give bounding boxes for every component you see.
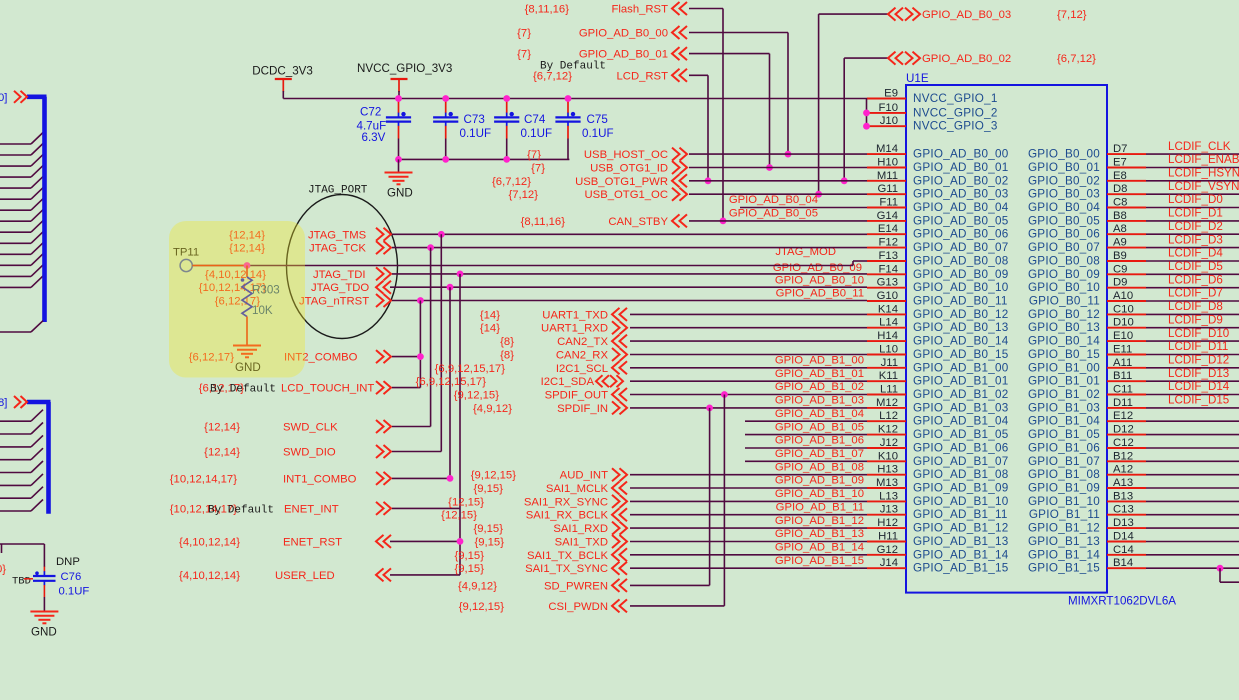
- svg-text:LCDIF_D1: LCDIF_D1: [1168, 207, 1223, 220]
- svg-text:SAI1_RX_SYNC: SAI1_RX_SYNC: [524, 496, 608, 508]
- svg-text:NVCC_GPIO_2: NVCC_GPIO_2: [913, 106, 998, 119]
- svg-text:NVCC_GPIO_3: NVCC_GPIO_3: [913, 120, 998, 133]
- svg-text:DCDC_3V3: DCDC_3V3: [252, 65, 313, 78]
- svg-text:SAI1_RXD: SAI1_RXD: [553, 523, 608, 535]
- svg-text:ENET_INT: ENET_INT: [284, 503, 339, 515]
- svg-text:B12: B12: [1113, 450, 1133, 462]
- svg-text:8]: 8]: [0, 397, 7, 409]
- svg-text:A9: A9: [1113, 237, 1127, 249]
- svg-text:LCDIF_D10: LCDIF_D10: [1168, 327, 1229, 340]
- svg-text:GPIO_AD_B1_01: GPIO_AD_B1_01: [775, 368, 864, 380]
- svg-text:{9,15}: {9,15}: [474, 537, 504, 549]
- svg-text:LCDIF_D4: LCDIF_D4: [1168, 247, 1223, 260]
- svg-text:DNP: DNP: [56, 556, 80, 568]
- svg-text:SPDIF_IN: SPDIF_IN: [557, 403, 608, 415]
- svg-text:C13: C13: [1113, 504, 1134, 516]
- svg-text:GPIO_AD_B1_04: GPIO_AD_B1_04: [913, 415, 1009, 428]
- svg-text:J13: J13: [880, 504, 898, 516]
- svg-text:GPIO_AD_B1_05: GPIO_AD_B1_05: [775, 421, 864, 433]
- svg-text:D14: D14: [1113, 531, 1134, 543]
- svg-text:{8,11,16}: {8,11,16}: [521, 216, 566, 228]
- svg-text:E9: E9: [884, 88, 898, 100]
- svg-text:GPIO_AD_B0_02: GPIO_AD_B0_02: [913, 174, 1009, 187]
- svg-text:CAN_STBY: CAN_STBY: [608, 216, 668, 228]
- svg-text:SWD_DIO: SWD_DIO: [283, 447, 336, 459]
- svg-text:USB_HOST_OC: USB_HOST_OC: [584, 149, 668, 161]
- svg-text:GPIO_AD_B1_08: GPIO_AD_B1_08: [775, 461, 864, 473]
- svg-text:J12: J12: [880, 437, 898, 449]
- svg-text:G14: G14: [877, 210, 898, 222]
- svg-text:{7}: {7}: [531, 163, 545, 175]
- svg-text:GPIO_AD_B0_13: GPIO_AD_B0_13: [913, 321, 1009, 334]
- svg-text:{6,9,12,15,17}: {6,9,12,15,17}: [435, 363, 506, 375]
- svg-text:GPIO_B1_15: GPIO_B1_15: [1028, 562, 1100, 575]
- svg-text:C14: C14: [1113, 544, 1134, 556]
- svg-text:GPIO_B0_00: GPIO_B0_00: [1028, 148, 1100, 161]
- svg-text:JTAG_TMS: JTAG_TMS: [308, 229, 367, 241]
- svg-text:GPIO_AD_B0_06: GPIO_AD_B0_06: [913, 228, 1009, 241]
- svg-text:GPIO_AD_B0_15: GPIO_AD_B0_15: [913, 348, 1009, 361]
- svg-text:C72: C72: [360, 106, 381, 119]
- svg-text:LCDIF_D13: LCDIF_D13: [1168, 367, 1229, 380]
- svg-text:GPIO_AD_B0_11: GPIO_AD_B0_11: [776, 288, 864, 300]
- svg-text:A10: A10: [1113, 290, 1133, 302]
- svg-text:SAI1_RX_BCLK: SAI1_RX_BCLK: [526, 510, 609, 522]
- svg-text:H14: H14: [877, 330, 898, 342]
- svg-text:GPIO_AD_B0_01: GPIO_AD_B0_01: [579, 49, 668, 61]
- svg-text:LCD_TOUCH_INT: LCD_TOUCH_INT: [281, 383, 374, 395]
- svg-text:{9,12,15}: {9,12,15}: [454, 390, 499, 402]
- svg-text:CAN2_TX: CAN2_TX: [557, 336, 608, 348]
- svg-text:GPIO_B0_12: GPIO_B0_12: [1028, 308, 1100, 321]
- svg-text:JTAG_TCK: JTAG_TCK: [309, 243, 366, 255]
- svg-text:G11: G11: [877, 183, 898, 195]
- svg-text:LCDIF_D15: LCDIF_D15: [1168, 394, 1229, 407]
- svg-text:H10: H10: [877, 157, 898, 169]
- svg-text:JTAG_TDO: JTAG_TDO: [311, 282, 369, 294]
- svg-text:{12,15}: {12,15}: [448, 496, 484, 508]
- svg-text:JTAG_TDI: JTAG_TDI: [313, 269, 366, 281]
- svg-text:C10: C10: [1113, 303, 1134, 315]
- svg-text:J10: J10: [880, 115, 898, 127]
- svg-text:NVCC_GPIO_1: NVCC_GPIO_1: [913, 92, 998, 105]
- svg-text:GPIO_AD_B1_03: GPIO_AD_B1_03: [913, 401, 1009, 414]
- svg-text:F10: F10: [879, 102, 898, 114]
- svg-text:U1E: U1E: [906, 72, 929, 85]
- svg-text:{9,12,15}: {9,12,15}: [471, 470, 516, 482]
- svg-text:F13: F13: [879, 250, 898, 262]
- svg-text:SD_PWREN: SD_PWREN: [544, 580, 608, 592]
- svg-text:UART1_TXD: UART1_TXD: [542, 309, 608, 321]
- svg-text:AUD_INT: AUD_INT: [560, 470, 608, 482]
- svg-text:6.3V: 6.3V: [362, 131, 386, 144]
- svg-text:SPDIF_OUT: SPDIF_OUT: [545, 390, 608, 402]
- svg-text:A11: A11: [1113, 357, 1132, 369]
- svg-text:G13: G13: [877, 277, 898, 289]
- svg-text:GPIO_AD_B0_08: GPIO_AD_B0_08: [913, 255, 1009, 268]
- svg-text:C74: C74: [524, 113, 546, 126]
- svg-text:CSI_PWDN: CSI_PWDN: [548, 601, 608, 613]
- svg-text:USB_OTG1_OC: USB_OTG1_OC: [585, 189, 669, 201]
- svg-text:GPIO_AD_B0_04: GPIO_AD_B0_04: [913, 201, 1009, 214]
- svg-text:{10,12,14,17}: {10,12,14,17}: [170, 473, 237, 485]
- svg-text:B14: B14: [1113, 557, 1133, 569]
- svg-text:GPIO_B1_13: GPIO_B1_13: [1028, 535, 1100, 548]
- svg-text:GPIO_B1_04: GPIO_B1_04: [1028, 415, 1100, 428]
- svg-text:LCDIF_D3: LCDIF_D3: [1168, 233, 1223, 246]
- svg-text:LCD_RST: LCD_RST: [617, 70, 669, 82]
- svg-text:GPIO_AD_B1_06: GPIO_AD_B1_06: [775, 435, 864, 447]
- svg-text:GPIO_AD_B1_12: GPIO_AD_B1_12: [775, 515, 864, 527]
- svg-text:GPIO_B0_05: GPIO_B0_05: [1028, 214, 1100, 227]
- svg-text:F11: F11: [879, 197, 898, 209]
- svg-text:GPIO_AD_B1_05: GPIO_AD_B1_05: [913, 428, 1009, 441]
- svg-text:0.1UF: 0.1UF: [521, 127, 553, 140]
- svg-text:GPIO_AD_B1_11: GPIO_AD_B1_11: [913, 508, 1008, 521]
- svg-text:{6,9,12,15,17}: {6,9,12,15,17}: [416, 376, 487, 388]
- svg-text:M12: M12: [876, 397, 898, 409]
- svg-text:0.1UF: 0.1UF: [59, 586, 90, 598]
- svg-text:GPIO_B1_05: GPIO_B1_05: [1028, 428, 1100, 441]
- svg-text:GPIO_AD_B0_09: GPIO_AD_B0_09: [913, 268, 1009, 281]
- svg-text:GPIO_AD_B1_14: GPIO_AD_B1_14: [775, 542, 864, 554]
- svg-text:{8}: {8}: [500, 336, 514, 348]
- svg-text:GPIO_B1_06: GPIO_B1_06: [1028, 442, 1100, 455]
- svg-text:LCDIF_CLK: LCDIF_CLK: [1168, 140, 1231, 153]
- svg-text:A13: A13: [1113, 477, 1133, 489]
- svg-text:LCDIF_D9: LCDIF_D9: [1168, 313, 1223, 326]
- svg-text:LCDIF_D8: LCDIF_D8: [1168, 300, 1223, 313]
- svg-text:LCDIF_D5: LCDIF_D5: [1168, 260, 1223, 273]
- svg-text:GPIO_AD_B1_00: GPIO_AD_B1_00: [913, 361, 1009, 374]
- svg-text:{8,11,16}: {8,11,16}: [525, 4, 570, 16]
- svg-text:GPIO_AD_B0_10: GPIO_AD_B0_10: [775, 274, 864, 286]
- svg-text:{12,14}: {12,14}: [204, 447, 240, 459]
- svg-text:GPIO_AD_B1_11: GPIO_AD_B1_11: [776, 501, 864, 513]
- svg-text:GPIO_B0_04: GPIO_B0_04: [1028, 201, 1100, 214]
- svg-text:GPIO_B1_10: GPIO_B1_10: [1028, 495, 1100, 508]
- svg-text:LCDIF_ENABLE: LCDIF_ENABLE: [1168, 153, 1239, 166]
- svg-text:GPIO_B0_08: GPIO_B0_08: [1028, 255, 1100, 268]
- svg-text:GPIO_B1_07: GPIO_B1_07: [1028, 455, 1100, 468]
- svg-text:GPIO_B1_08: GPIO_B1_08: [1028, 468, 1100, 481]
- svg-text:E7: E7: [1113, 157, 1127, 169]
- svg-text:GPIO_B0_14: GPIO_B0_14: [1028, 335, 1100, 348]
- svg-text:By Default: By Default: [210, 384, 276, 396]
- svg-text:GPIO_AD_B0_04: GPIO_AD_B0_04: [729, 194, 818, 206]
- svg-text:CAN2_RX: CAN2_RX: [556, 350, 609, 362]
- svg-text:D12: D12: [1113, 424, 1134, 436]
- svg-text:D10: D10: [1113, 317, 1134, 329]
- svg-text:D8: D8: [1113, 183, 1127, 195]
- svg-text:ENET_RST: ENET_RST: [283, 536, 342, 548]
- svg-text:C11: C11: [1113, 384, 1133, 396]
- svg-text:LCDIF_VSYNC: LCDIF_VSYNC: [1168, 180, 1239, 193]
- svg-text:{8}: {8}: [500, 350, 514, 362]
- svg-text:0]: 0]: [0, 92, 7, 104]
- svg-text:B11: B11: [1113, 370, 1132, 382]
- svg-text:SAI1_TXD: SAI1_TXD: [555, 537, 608, 549]
- svg-text:I2C1_SCL: I2C1_SCL: [556, 363, 608, 375]
- svg-text:K14: K14: [878, 303, 898, 315]
- svg-text:C73: C73: [464, 113, 485, 126]
- svg-text:GND: GND: [387, 187, 413, 200]
- svg-text:{12,15}: {12,15}: [441, 510, 477, 522]
- svg-text:B13: B13: [1113, 490, 1133, 502]
- svg-text:K11: K11: [879, 370, 898, 382]
- svg-text:GPIO_AD_B1_13: GPIO_AD_B1_13: [913, 535, 1009, 548]
- svg-text:TBD: TBD: [12, 576, 31, 588]
- svg-text:{14}: {14}: [480, 309, 500, 321]
- svg-text:C76: C76: [61, 571, 82, 583]
- svg-text:LCDIF_D6: LCDIF_D6: [1168, 273, 1223, 286]
- svg-text:GPIO_AD_B1_08: GPIO_AD_B1_08: [913, 468, 1009, 481]
- svg-text:By Default: By Default: [208, 504, 274, 516]
- svg-text:L12: L12: [879, 410, 898, 422]
- svg-text:M13: M13: [876, 477, 898, 489]
- svg-text:GPIO_B0_01: GPIO_B0_01: [1028, 161, 1100, 174]
- svg-text:L13: L13: [879, 490, 898, 502]
- svg-text:{4,10,12,14}: {4,10,12,14}: [179, 536, 240, 548]
- svg-text:{9,15}: {9,15}: [473, 483, 503, 495]
- svg-text:H12: H12: [877, 517, 898, 529]
- svg-text:A8: A8: [1113, 223, 1127, 235]
- svg-text:{9,15}: {9,15}: [454, 550, 484, 562]
- svg-text:GPIO_B1_11: GPIO_B1_11: [1029, 508, 1100, 521]
- svg-text:D13: D13: [1113, 517, 1134, 529]
- svg-text:LCDIF_D2: LCDIF_D2: [1168, 220, 1223, 233]
- svg-text:NVCC_GPIO_3V3: NVCC_GPIO_3V3: [357, 62, 452, 75]
- svg-text:M11: M11: [877, 170, 898, 182]
- svg-text:B9: B9: [1113, 250, 1127, 262]
- svg-text:{9,15}: {9,15}: [454, 563, 484, 575]
- svg-text:K10: K10: [878, 450, 898, 462]
- svg-text:{4,9,12}: {4,9,12}: [458, 580, 497, 592]
- svg-text:GPIO_AD_B1_06: GPIO_AD_B1_06: [913, 442, 1009, 455]
- svg-text:GPIO_AD_B0_11: GPIO_AD_B0_11: [913, 295, 1008, 308]
- svg-text:G12: G12: [877, 544, 898, 556]
- svg-text:GPIO_AD_B0_03: GPIO_AD_B0_03: [913, 188, 1009, 201]
- svg-text:{7,12}: {7,12}: [508, 189, 538, 201]
- svg-text:C9: C9: [1113, 263, 1127, 275]
- svg-text:{12,14}: {12,14}: [204, 422, 240, 434]
- svg-text:GPIO_AD_B1_01: GPIO_AD_B1_01: [913, 375, 1009, 388]
- svg-text:GPIO_B0_11: GPIO_B0_11: [1029, 295, 1100, 308]
- svg-text:GPIO_AD_B0_14: GPIO_AD_B0_14: [913, 335, 1009, 348]
- svg-text:JTAG_nTRST: JTAG_nTRST: [299, 296, 369, 308]
- svg-text:K12: K12: [878, 424, 898, 436]
- svg-text:MIMXRT1062DVL6A: MIMXRT1062DVL6A: [1068, 595, 1176, 608]
- svg-text:GPIO_AD_B1_13: GPIO_AD_B1_13: [775, 528, 864, 540]
- svg-text:A12: A12: [1113, 464, 1133, 476]
- svg-text:GPIO_B0_09: GPIO_B0_09: [1028, 268, 1100, 281]
- svg-text:D11: D11: [1113, 397, 1133, 409]
- svg-text:F12: F12: [879, 237, 898, 249]
- svg-text:GPIO_B0_15: GPIO_B0_15: [1028, 348, 1100, 361]
- svg-text:By Default: By Default: [540, 61, 606, 73]
- svg-text:{7}: {7}: [527, 149, 541, 161]
- svg-text:D9: D9: [1113, 277, 1127, 289]
- svg-text:{9,12,15}: {9,12,15}: [459, 601, 504, 613]
- svg-text:B8: B8: [1113, 210, 1127, 222]
- svg-text:GPIO_B1_00: GPIO_B1_00: [1028, 361, 1100, 374]
- svg-text:GPIO_AD_B1_07: GPIO_AD_B1_07: [913, 455, 1009, 468]
- svg-text:F14: F14: [879, 263, 898, 275]
- svg-text:E8: E8: [1113, 170, 1127, 182]
- svg-text:USB_OTG1_ID: USB_OTG1_ID: [590, 163, 668, 175]
- svg-text:GPIO_AD_B1_09: GPIO_AD_B1_09: [775, 475, 864, 487]
- svg-text:E11: E11: [1113, 344, 1132, 356]
- svg-text:GPIO_B1_01: GPIO_B1_01: [1028, 375, 1100, 388]
- svg-text:GPIO_AD_B0_00: GPIO_AD_B0_00: [579, 28, 668, 40]
- svg-text:GPIO_B1_02: GPIO_B1_02: [1028, 388, 1100, 401]
- svg-text:G10: G10: [877, 290, 898, 302]
- svg-text:LCDIF_D11: LCDIF_D11: [1168, 340, 1228, 353]
- svg-text:0.1UF: 0.1UF: [460, 127, 492, 140]
- svg-text:H13: H13: [877, 464, 898, 476]
- svg-text:H11: H11: [878, 531, 898, 543]
- svg-text:0.1UF: 0.1UF: [582, 127, 614, 140]
- svg-text:C12: C12: [1113, 437, 1134, 449]
- svg-text:GPIO_AD_B1_15: GPIO_AD_B1_15: [913, 562, 1009, 575]
- svg-text:GPIO_AD_B1_15: GPIO_AD_B1_15: [775, 555, 864, 567]
- svg-text:0}: 0}: [0, 564, 6, 576]
- svg-text:GPIO_AD_B0_02: GPIO_AD_B0_02: [922, 53, 1011, 65]
- svg-text:GPIO_AD_B0_10: GPIO_AD_B0_10: [913, 281, 1009, 294]
- svg-text:E12: E12: [1113, 410, 1133, 422]
- svg-text:GPIO_AD_B1_07: GPIO_AD_B1_07: [775, 448, 864, 460]
- svg-text:GPIO_AD_B1_10: GPIO_AD_B1_10: [775, 488, 864, 500]
- svg-text:GPIO_B0_03: GPIO_B0_03: [1028, 188, 1100, 201]
- svg-text:GPIO_AD_B1_10: GPIO_AD_B1_10: [913, 495, 1009, 508]
- svg-text:SWD_CLK: SWD_CLK: [283, 422, 338, 434]
- svg-text:GPIO_B0_10: GPIO_B0_10: [1028, 281, 1100, 294]
- svg-text:GPIO_B0_06: GPIO_B0_06: [1028, 228, 1100, 241]
- svg-text:GPIO_AD_B1_14: GPIO_AD_B1_14: [913, 548, 1009, 561]
- svg-text:LCDIF_HSYNC: LCDIF_HSYNC: [1168, 167, 1239, 180]
- svg-text:GPIO_B1_14: GPIO_B1_14: [1028, 548, 1100, 561]
- svg-text:UART1_RXD: UART1_RXD: [541, 323, 608, 335]
- svg-text:LCDIF_D7: LCDIF_D7: [1168, 287, 1223, 300]
- svg-text:D7: D7: [1113, 143, 1127, 155]
- svg-text:LCDIF_D14: LCDIF_D14: [1168, 380, 1230, 393]
- svg-text:I2C1_SDA: I2C1_SDA: [541, 376, 595, 388]
- svg-text:{4,10,12,14}: {4,10,12,14}: [179, 570, 240, 582]
- svg-text:GND: GND: [31, 626, 57, 639]
- svg-text:L11: L11: [880, 384, 898, 396]
- svg-text:USER_LED: USER_LED: [275, 570, 335, 582]
- svg-text:{4,9,12}: {4,9,12}: [473, 403, 512, 415]
- svg-text:GPIO_AD_B1_09: GPIO_AD_B1_09: [913, 482, 1009, 495]
- svg-text:LCDIF_D0: LCDIF_D0: [1168, 193, 1223, 206]
- svg-text:{6,7,12}: {6,7,12}: [1057, 53, 1096, 65]
- svg-text:{7,12}: {7,12}: [1057, 9, 1087, 21]
- svg-text:GPIO_AD_B1_02: GPIO_AD_B1_02: [775, 381, 864, 393]
- svg-text:GPIO_B1_03: GPIO_B1_03: [1028, 401, 1100, 414]
- svg-text:SAI1_MCLK: SAI1_MCLK: [546, 483, 609, 495]
- svg-text:GPIO_AD_B0_00: GPIO_AD_B0_00: [913, 148, 1009, 161]
- svg-text:GPIO_AD_B0_07: GPIO_AD_B0_07: [913, 241, 1009, 254]
- svg-text:GPIO_B0_02: GPIO_B0_02: [1028, 174, 1100, 187]
- svg-text:{9,15}: {9,15}: [473, 523, 503, 535]
- svg-text:L10: L10: [879, 344, 898, 356]
- svg-text:GPIO_B1_12: GPIO_B1_12: [1028, 522, 1100, 535]
- svg-text:GPIO_AD_B0_12: GPIO_AD_B0_12: [913, 308, 1009, 321]
- svg-text:C75: C75: [587, 113, 608, 126]
- svg-text:GPIO_B0_13: GPIO_B0_13: [1028, 321, 1100, 334]
- svg-text:L14: L14: [879, 317, 898, 329]
- svg-text:{14}: {14}: [480, 323, 500, 335]
- svg-text:GPIO_AD_B0_05: GPIO_AD_B0_05: [729, 208, 818, 220]
- svg-text:E14: E14: [878, 223, 898, 235]
- svg-text:LCDIF_D12: LCDIF_D12: [1168, 354, 1229, 367]
- svg-text:GPIO_AD_B0_09: GPIO_AD_B0_09: [773, 262, 862, 274]
- svg-text:GPIO_AD_B0_05: GPIO_AD_B0_05: [913, 214, 1009, 227]
- svg-text:M14: M14: [876, 143, 898, 155]
- svg-text:GPIO_AD_B1_03: GPIO_AD_B1_03: [775, 395, 864, 407]
- svg-text:SAI1_TX_SYNC: SAI1_TX_SYNC: [525, 563, 608, 575]
- svg-text:SAI1_TX_BCLK: SAI1_TX_BCLK: [527, 550, 608, 562]
- svg-text:{7}: {7}: [517, 49, 531, 61]
- svg-text:GPIO_AD_B0_03: GPIO_AD_B0_03: [922, 9, 1011, 21]
- svg-text:J14: J14: [880, 557, 898, 569]
- svg-text:J11: J11: [881, 357, 898, 369]
- svg-text:Flash_RST: Flash_RST: [611, 4, 668, 16]
- svg-text:GPIO_B0_07: GPIO_B0_07: [1028, 241, 1100, 254]
- svg-text:{7}: {7}: [517, 28, 531, 40]
- svg-text:GPIO_AD_B1_00: GPIO_AD_B1_00: [775, 355, 864, 367]
- svg-text:GPIO_AD_B1_12: GPIO_AD_B1_12: [913, 522, 1009, 535]
- svg-text:GPIO_AD_B1_02: GPIO_AD_B1_02: [913, 388, 1009, 401]
- svg-text:GPIO_AD_B0_01: GPIO_AD_B0_01: [913, 161, 1009, 174]
- svg-text:INT1_COMBO: INT1_COMBO: [283, 473, 357, 485]
- svg-text:C8: C8: [1113, 197, 1127, 209]
- svg-text:GPIO_AD_B1_04: GPIO_AD_B1_04: [775, 408, 864, 420]
- svg-text:{6,7,12}: {6,7,12}: [492, 176, 531, 188]
- svg-text:E10: E10: [1113, 330, 1133, 342]
- svg-text:GPIO_B1_09: GPIO_B1_09: [1028, 482, 1100, 495]
- svg-text:USB_OTG1_PWR: USB_OTG1_PWR: [575, 176, 668, 188]
